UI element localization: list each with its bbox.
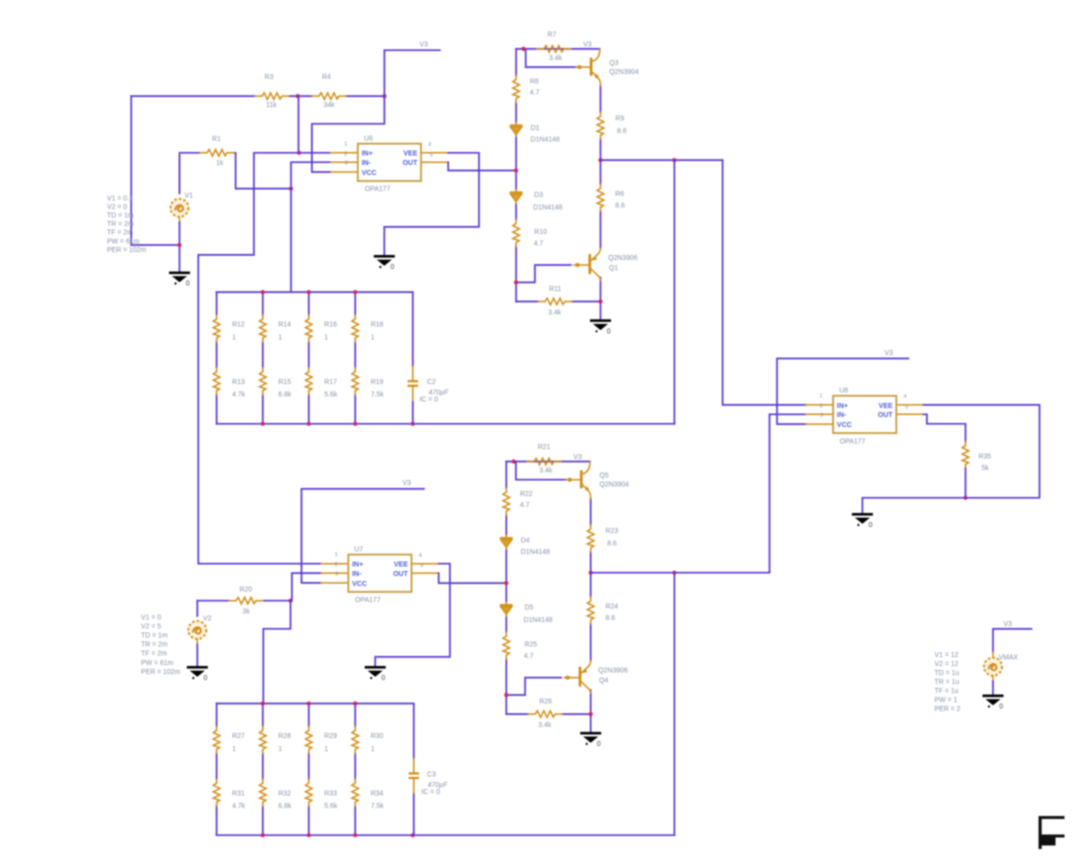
svg-text:4.7k: 4.7k (232, 803, 246, 810)
capacitor C2 (412, 292, 414, 424)
svg-text:TF = 1u: TF = 1u (935, 688, 959, 695)
svg-text:D1N4148: D1N4148 (524, 617, 553, 624)
svg-text:1: 1 (278, 746, 282, 753)
wire V3 stub U8 (777, 359, 908, 425)
svg-text:D1: D1 (531, 125, 540, 132)
svg-text:V2 = 12: V2 = 12 (935, 661, 959, 668)
svg-text:C2: C2 (427, 379, 436, 386)
svg-text:1: 1 (371, 335, 375, 342)
svg-text:R21: R21 (538, 444, 551, 451)
svg-text:R15: R15 (278, 379, 291, 386)
wire U6 OUT (448, 162, 516, 170)
svg-text:4.7: 4.7 (530, 90, 540, 97)
wire R1 out to IN- node (236, 153, 331, 189)
svg-text:V3: V3 (403, 480, 412, 487)
wire U6 VEE to ground (384, 153, 479, 255)
ground V1 (169, 272, 190, 288)
svg-text:Q2N3906: Q2N3906 (608, 255, 638, 262)
svg-text:R23: R23 (606, 528, 619, 535)
wire bank feed top (290, 189, 292, 293)
svg-text:8.6: 8.6 (607, 541, 617, 548)
svg-text:V3: V3 (1004, 621, 1013, 628)
wire output to U8 IN+ (723, 160, 806, 405)
svg-text:PER = 102m: PER = 102m (141, 669, 181, 676)
resistor bank bottom (R27-R34) (213, 701, 674, 837)
svg-text:TF = 2m: TF = 2m (107, 230, 133, 237)
svg-text:R17: R17 (324, 379, 337, 386)
svg-text:TD = 1u: TD = 1u (935, 670, 960, 677)
svg-text:R35: R35 (979, 454, 992, 461)
svg-text:Q2N3904: Q2N3904 (600, 482, 630, 489)
capacitor C3 (413, 704, 415, 836)
svg-text:4.7: 4.7 (534, 241, 544, 248)
ground U6 (374, 255, 395, 271)
node junction R4/V3riser (382, 94, 386, 98)
op-amp U8 (806, 393, 924, 433)
output stage bottom (R21 R22 D4 D5 R25 R23 R24 R26 Q5 Q4) (501, 458, 602, 748)
voltage source VMAX (984, 658, 1002, 676)
ground VMAX (983, 695, 1004, 711)
svg-text:R18: R18 (371, 322, 384, 329)
svg-text:V2 = 0: V2 = 0 (107, 204, 127, 211)
wire V1 bottom / junction (179, 222, 181, 271)
svg-text:VMAX: VMAX (999, 655, 1019, 662)
svg-text:R30: R30 (371, 733, 384, 740)
svg-text:V3: V3 (573, 454, 582, 461)
svg-text:Q2N3904: Q2N3904 (609, 69, 639, 76)
wire U8 OUT to R35 (924, 414, 966, 441)
svg-text:C3: C3 (427, 772, 436, 779)
svg-text:V3: V3 (583, 42, 592, 49)
svg-text:3.4k: 3.4k (548, 310, 562, 317)
svg-text:V2 = 5: V2 = 5 (141, 624, 161, 631)
ground U8 (852, 513, 873, 529)
svg-text:TF = 2m: TF = 2m (141, 651, 167, 658)
wire top feedback rail (131, 95, 384, 97)
svg-text:PW = 1: PW = 1 (935, 697, 958, 704)
svg-text:3k: 3k (243, 609, 251, 616)
svg-text:PW = 61m: PW = 61m (141, 660, 174, 667)
svg-text:R3: R3 (265, 74, 274, 81)
svg-text:OPA177: OPA177 (355, 597, 381, 604)
svg-text:R13: R13 (232, 379, 245, 386)
svg-text:1k: 1k (216, 160, 224, 167)
svg-text:1: 1 (324, 335, 328, 342)
svg-text:R31: R31 (232, 790, 245, 797)
svg-text:D5: D5 (525, 605, 534, 612)
svg-text:8.6: 8.6 (606, 615, 616, 622)
resistor R1 (180, 152, 236, 154)
output stage top (R7 R8 D1 D3 R10 R9 R6 R11 Q3 Q1) (510, 46, 611, 336)
svg-text:TD = 1m: TD = 1m (107, 213, 134, 220)
wire feedback to U8 IN- (770, 414, 806, 572)
node junction R3/R4 (296, 94, 300, 98)
svg-text:8.6: 8.6 (617, 128, 627, 135)
svg-text:OPA177: OPA177 (840, 438, 866, 445)
svg-text:R6: R6 (615, 191, 624, 198)
wire output node bottom (591, 572, 770, 574)
svg-text:R28: R28 (278, 733, 291, 740)
wire U7 VEE to ground (375, 564, 450, 666)
svg-text:R29: R29 (324, 733, 337, 740)
svg-text:PW = 61m: PW = 61m (107, 238, 140, 245)
svg-text:OPA177: OPA177 (365, 186, 391, 193)
op-amp U7 (321, 552, 439, 592)
svg-text:V1 = 12: V1 = 12 (935, 652, 959, 659)
svg-text:5.6k: 5.6k (324, 392, 338, 399)
svg-text:R34: R34 (371, 790, 384, 797)
svg-text:R19: R19 (371, 379, 384, 386)
wire V3 stub top (384, 50, 440, 96)
svg-text:V3: V3 (420, 42, 429, 49)
svg-text:R16: R16 (324, 322, 337, 329)
svg-text:R27: R27 (232, 733, 245, 740)
svg-text:TD = 1m: TD = 1m (141, 633, 168, 640)
svg-text:1: 1 (324, 746, 328, 753)
svg-text:Q5: Q5 (600, 473, 609, 480)
svg-text:5k: 5k (982, 465, 990, 472)
svg-text:1: 1 (232, 335, 236, 342)
ground U7 (365, 666, 386, 682)
corner marker icon (1039, 816, 1065, 849)
wire R3/R4 node to IN+ (298, 96, 300, 153)
svg-text:34k: 34k (324, 102, 336, 109)
voltage source V2 (188, 621, 206, 639)
svg-text:11k: 11k (266, 102, 277, 109)
op-amp U6 (331, 141, 449, 181)
svg-text:U7: U7 (354, 547, 363, 554)
svg-text:D1N4148: D1N4148 (533, 205, 562, 212)
svg-text:470µF: 470µF (428, 782, 448, 789)
svg-text:6.8k: 6.8k (278, 803, 292, 810)
svg-text:R25: R25 (525, 642, 538, 649)
svg-text:R9: R9 (615, 116, 624, 123)
svg-text:D1N4148: D1N4148 (531, 137, 560, 144)
ground V2 (187, 666, 208, 682)
wire R20 out to U7 IN- (292, 573, 321, 601)
svg-text:4.7k: 4.7k (232, 392, 246, 399)
svg-text:5.6k: 5.6k (324, 803, 338, 810)
svg-text:4.7: 4.7 (520, 502, 530, 509)
svg-text:R12: R12 (232, 322, 245, 329)
svg-text:Q1: Q1 (609, 265, 618, 272)
wire V3 stub VMAX (993, 629, 1032, 652)
wire U6 IN+ (254, 152, 331, 154)
svg-text:3.4k: 3.4k (539, 468, 553, 475)
svg-text:R14: R14 (278, 322, 291, 329)
svg-text:R11: R11 (549, 286, 561, 293)
svg-text:Q2N3906: Q2N3906 (598, 668, 628, 675)
svg-text:8.6: 8.6 (615, 203, 625, 210)
resistor bank top (R12-R19) (213, 290, 674, 426)
svg-text:D4: D4 (521, 538, 530, 545)
svg-text:R1: R1 (212, 136, 221, 143)
svg-text:1: 1 (371, 746, 375, 753)
svg-text:D1N4148: D1N4148 (521, 549, 550, 556)
svg-text:R4: R4 (322, 74, 331, 81)
svg-text:V2: V2 (203, 616, 212, 623)
wire V1 top (179, 155, 181, 193)
svg-text:TR = 2m: TR = 2m (141, 642, 168, 649)
svg-text:Q4: Q4 (599, 678, 608, 685)
svg-text:PER = 2: PER = 2 (935, 706, 961, 713)
svg-text:R8: R8 (530, 79, 539, 86)
svg-text:V1 = 0.1: V1 = 0.1 (107, 196, 133, 203)
svg-text:U8: U8 (839, 388, 848, 395)
resistor R4 (312, 93, 346, 100)
svg-text:3.4k: 3.4k (549, 55, 563, 62)
svg-text:U6: U6 (364, 136, 373, 143)
svg-text:7.5k: 7.5k (371, 392, 385, 399)
wire VCC feed U6 (312, 96, 385, 172)
wire VMAX bottom (992, 681, 994, 694)
svg-text:D3: D3 (534, 192, 543, 199)
voltage source V1 (171, 199, 189, 217)
resistor R35 (962, 442, 969, 469)
svg-text:1: 1 (278, 335, 282, 342)
svg-text:3.4k: 3.4k (538, 722, 552, 729)
wire output node top (601, 159, 723, 161)
svg-text:R24: R24 (606, 604, 619, 611)
svg-text:IC = 0: IC = 0 (420, 397, 439, 404)
svg-text:R10: R10 (534, 229, 547, 236)
svg-text:IC = 0: IC = 0 (422, 789, 441, 796)
svg-text:TR = 2m: TR = 2m (107, 221, 134, 228)
wire U7 OUT (439, 573, 507, 583)
wire bank feed bottom (263, 601, 290, 704)
svg-text:V1 = 0: V1 = 0 (141, 615, 161, 622)
svg-text:6.8k: 6.8k (278, 392, 292, 399)
svg-text:TR = 1u: TR = 1u (935, 679, 960, 686)
svg-text:1: 1 (232, 746, 236, 753)
svg-text:470µF: 470µF (429, 390, 449, 397)
wire IN+ distribution down to U7 (198, 153, 321, 564)
svg-text:PER = 102m: PER = 102m (107, 247, 147, 254)
wire output to bank rail (673, 160, 675, 424)
svg-text:Q3: Q3 (609, 60, 618, 67)
resistor R3 (255, 93, 289, 100)
wire V2 bottom (196, 644, 198, 666)
svg-text:V1: V1 (185, 193, 194, 200)
wire U8 VEE loop to ground (862, 405, 1039, 513)
svg-text:4.7: 4.7 (524, 653, 534, 660)
svg-text:7.5k: 7.5k (371, 803, 385, 810)
resistor R20 (197, 600, 290, 602)
wire V3 stub U7 (302, 489, 425, 583)
wire output to bank rail bottom (673, 573, 675, 836)
svg-text:R26: R26 (539, 699, 552, 706)
wire V2 top (196, 601, 198, 616)
svg-text:R33: R33 (324, 790, 337, 797)
svg-text:R22: R22 (520, 491, 533, 498)
svg-text:R20: R20 (240, 587, 253, 594)
svg-text:V3: V3 (885, 350, 894, 357)
svg-text:R7: R7 (548, 32, 557, 39)
svg-text:R32: R32 (278, 790, 291, 797)
